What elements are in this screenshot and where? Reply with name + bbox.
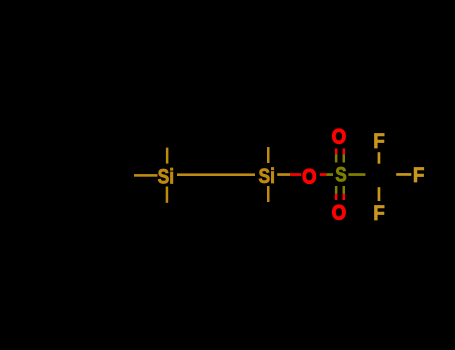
wire: Si2 lower methyl bond xyxy=(267,186,270,202)
wire: C-F right bond xyxy=(396,173,411,176)
svg-text:O: O xyxy=(332,125,346,149)
svg-text:O: O xyxy=(302,165,316,189)
wire: Si1 upper methyl bond xyxy=(166,148,169,164)
svg-text:O: O xyxy=(332,201,346,225)
wire: C-F bottom bond xyxy=(378,187,381,201)
wire: Si1-Si2 bond xyxy=(177,173,255,176)
svg-text:F: F xyxy=(373,130,385,153)
wire: S=O top double bond, right line, S half (olive) xyxy=(343,154,346,162)
svg-text:F: F xyxy=(373,202,385,225)
svg-text:F: F xyxy=(413,164,425,187)
wire: S=O top double bond, left line, O half (red) xyxy=(335,149,338,155)
atom O (ester oxygen) xyxy=(302,165,316,189)
atom S (sulfonyl sulfur) xyxy=(335,163,346,187)
wire: S-C bond (olive, S half; carbon vertex blank) xyxy=(348,173,365,176)
atom Si2 (dimethylsilyl silicon) xyxy=(259,164,275,188)
wire: O-S bond, O half (red) xyxy=(320,173,327,176)
svg-text:Si: Si xyxy=(158,165,174,189)
wire: S=O bottom double bond, left line, O half (red) xyxy=(335,194,338,200)
wire: Si2 upper methyl bond xyxy=(267,147,270,163)
atom F (right fluorine) xyxy=(413,164,425,187)
wire: C-F top bond xyxy=(378,152,381,164)
wire: Si2-O bond, Si half (gold) xyxy=(277,173,290,176)
wire: Si1 lower methyl bond xyxy=(166,187,169,203)
atom O (top sulfonyl oxygen) xyxy=(332,125,346,149)
wire: S=O top double bond, right line, O half (red) xyxy=(343,149,346,155)
atom F (bottom fluorine) xyxy=(373,202,385,225)
wire: S=O bottom double bond, right line, O half (red) xyxy=(343,194,346,200)
wire: methyl bond CH3-Si1 (left) xyxy=(134,174,158,177)
wire: O-S bond, S half (olive) xyxy=(326,173,333,176)
atom F (top fluorine) xyxy=(373,130,385,153)
wire: Si2-O bond, O half (red) xyxy=(290,173,301,176)
wire: S=O top double bond, left line, S half (olive) xyxy=(335,154,338,162)
svg-text:Si: Si xyxy=(259,164,275,188)
atom Si1 (trimethylsilyl silicon) xyxy=(158,165,174,189)
wire: S=O bottom double bond, left line, S half (olive) xyxy=(335,186,338,194)
wire: S=O bottom double bond, right line, S half (olive) xyxy=(343,186,346,194)
svg-text:S: S xyxy=(335,163,346,187)
atom O (bottom sulfonyl oxygen) xyxy=(332,201,346,225)
